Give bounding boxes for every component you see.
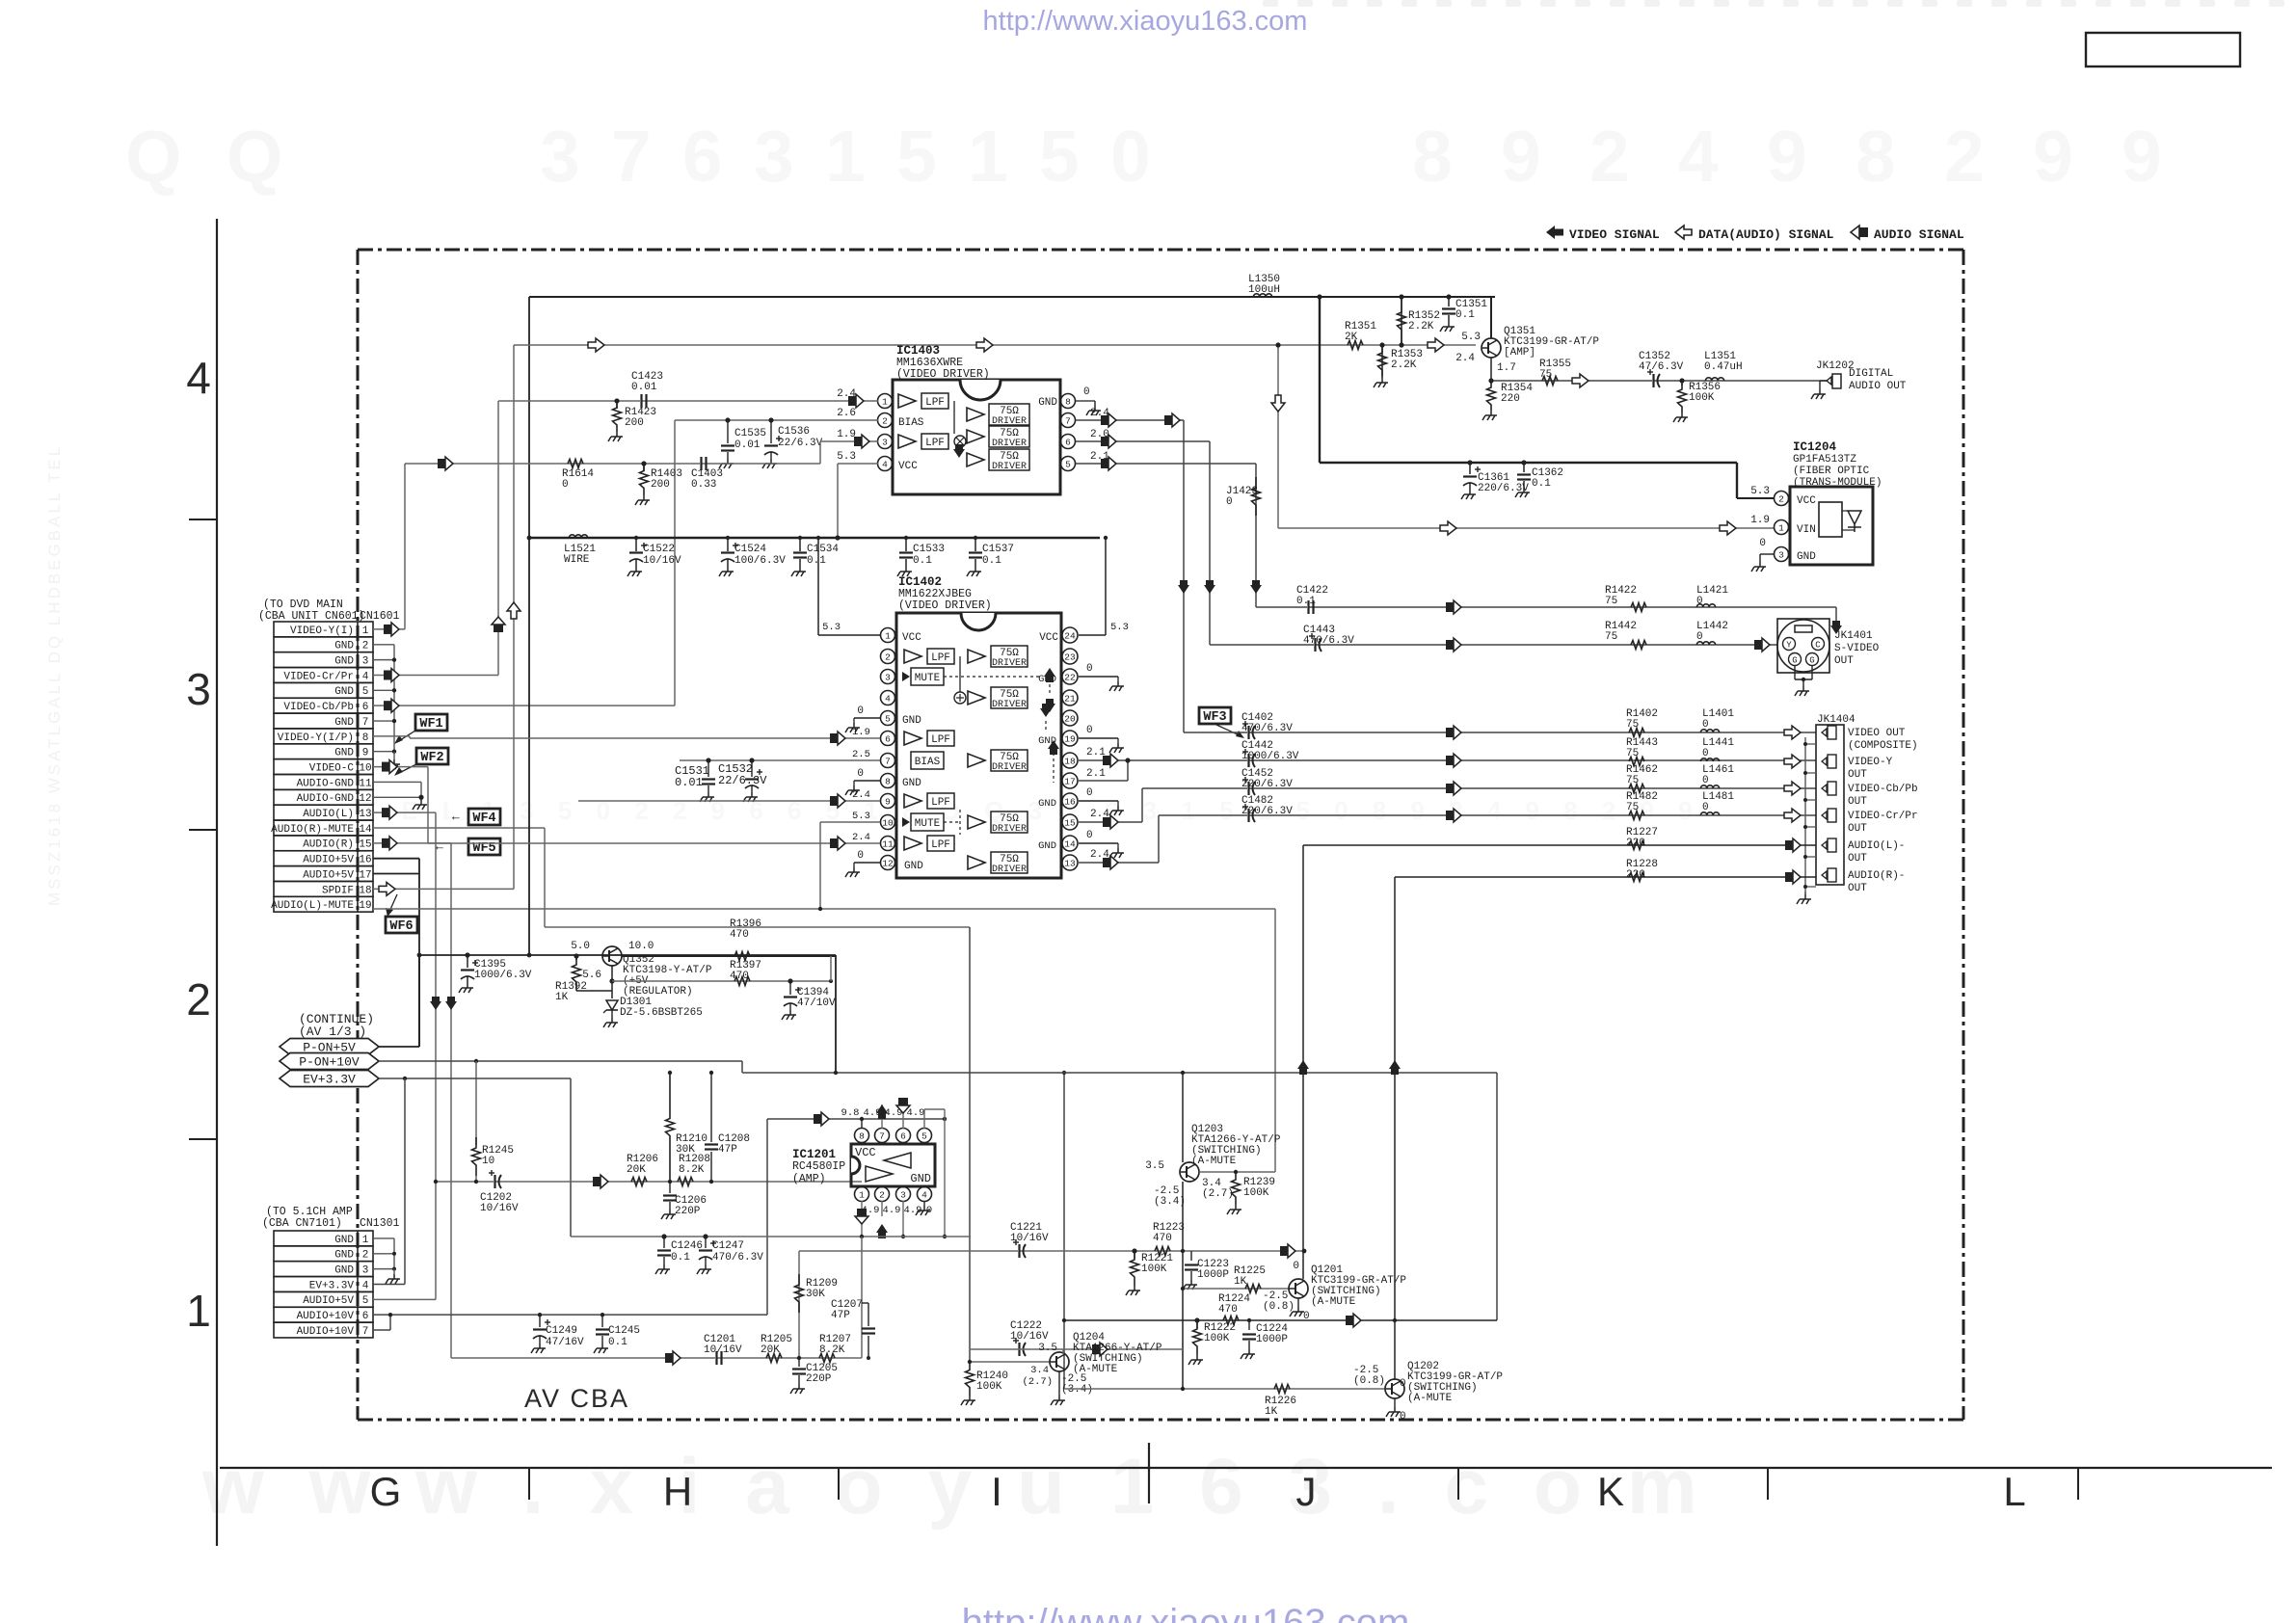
svg-text:3.5: 3.5 [1038,1343,1057,1354]
svg-text:0.1: 0.1 [1296,596,1316,607]
svg-text:18: 18 [359,885,371,896]
svg-text:1K: 1K [1234,1276,1247,1288]
svg-text:47/16V: 47/16V [546,1337,584,1348]
svg-text:C1522: C1522 [643,544,675,555]
svg-text:5.6: 5.6 [582,970,601,981]
svg-text:470/6.3V: 470/6.3V [1241,723,1293,734]
svg-text:220P: 220P [675,1206,701,1217]
svg-text:0.1: 0.1 [1532,478,1551,490]
svg-text:JK1404: JK1404 [1817,714,1855,726]
svg-text:3.5: 3.5 [1145,1160,1164,1172]
svg-text:LPF: LPF [931,652,950,664]
svg-text:22/6.3V: 22/6.3V [778,438,823,449]
svg-text:CN1601: CN1601 [360,610,400,623]
svg-text:AUDIO OUT: AUDIO OUT [1849,381,1907,392]
svg-text:3: 3 [186,664,211,714]
svg-text:47/10V: 47/10V [797,998,836,1009]
svg-text:(A-MUTE: (A-MUTE [1311,1296,1356,1308]
svg-text:C1249: C1249 [546,1325,577,1337]
svg-text:LPF: LPF [925,397,945,409]
svg-text:GND: GND [1038,798,1056,810]
svg-text:12: 12 [882,859,894,869]
svg-text:0.01: 0.01 [631,382,657,393]
svg-text:0: 0 [562,479,569,491]
svg-text:VIDEO-Cr/Pr: VIDEO-Cr/Pr [283,671,354,682]
svg-text:16: 16 [1064,797,1076,808]
svg-text:SPDIF: SPDIF [322,885,354,896]
svg-text:8: 8 [362,732,369,744]
svg-text:CN1301: CN1301 [360,1217,400,1230]
svg-text:7: 7 [611,116,652,197]
svg-text:0: 0 [1293,1261,1299,1272]
svg-text:VIN: VIN [1797,524,1816,536]
svg-text:4.9: 4.9 [907,1107,925,1119]
svg-text:2.1: 2.1 [1090,451,1109,463]
svg-text:VIDEO-Y: VIDEO-Y [1848,757,1893,768]
svg-text:0.1: 0.1 [671,1252,690,1264]
svg-text:IC1204: IC1204 [1793,440,1837,454]
svg-text:C1246: C1246 [671,1240,703,1252]
svg-text:0: 0 [857,768,864,780]
svg-text:C1534: C1534 [807,544,839,555]
svg-text:470/6.3V: 470/6.3V [1303,635,1354,647]
svg-text:(0.8): (0.8) [1353,1375,1385,1387]
svg-text:4: 4 [882,460,888,470]
svg-text:C1247: C1247 [712,1240,744,1252]
svg-text:220/6.3V: 220/6.3V [1241,806,1293,817]
svg-text:(3.4): (3.4) [1061,1384,1093,1396]
svg-text:5: 5 [1065,460,1071,470]
svg-text:DATA(AUDIO) SIGNAL: DATA(AUDIO) SIGNAL [1698,227,1834,242]
svg-text:DZ-5.6BSBT265: DZ-5.6BSBT265 [620,1007,703,1019]
svg-text:GND: GND [334,1250,354,1262]
svg-text:EV+3.3V: EV+3.3V [303,1073,356,1087]
svg-text:GND: GND [910,1172,931,1185]
svg-text:DRIVER: DRIVER [992,439,1027,449]
svg-text:2.0: 2.0 [1090,429,1109,440]
svg-text:OUT: OUT [1848,796,1867,808]
svg-text:0: 0 [1086,787,1093,799]
svg-text:1: 1 [968,116,1008,197]
svg-text:S-VIDEO: S-VIDEO [1834,643,1880,654]
svg-text:0: 0 [1086,663,1093,675]
svg-text:LPF: LPF [931,797,950,809]
svg-text:0: 0 [1226,496,1233,508]
svg-text:5.3: 5.3 [837,451,856,463]
svg-text:1.9: 1.9 [852,727,870,738]
svg-text:12: 12 [359,793,371,805]
svg-text:10/16V: 10/16V [480,1203,519,1214]
svg-text:GP1FA513TZ: GP1FA513TZ [1793,454,1856,466]
svg-text:10/16V: 10/16V [704,1344,742,1356]
svg-text:0: 0 [1702,719,1709,731]
svg-text:5: 5 [1039,116,1080,197]
svg-text:3.4: 3.4 [1030,1365,1049,1376]
svg-text:9: 9 [885,797,891,808]
svg-text:14: 14 [1064,839,1076,850]
svg-text:OUT: OUT [1848,853,1867,865]
svg-text:VIDEO-Y(I): VIDEO-Y(I) [290,625,354,637]
svg-text:OUT: OUT [1848,883,1867,894]
svg-text:1000P: 1000P [1256,1334,1288,1345]
svg-text:GND: GND [902,715,921,727]
svg-text:OUT: OUT [1834,655,1854,667]
svg-text:10: 10 [482,1156,494,1167]
svg-text:WF2: WF2 [420,751,443,765]
svg-text:AUDIO+5V: AUDIO+5V [303,1295,354,1307]
svg-text:AUDIO-GND: AUDIO-GND [297,793,355,805]
svg-text:VIDEO OUT: VIDEO OUT [1848,728,1906,739]
svg-text:100K: 100K [976,1381,1002,1393]
svg-text:MUTE: MUTE [915,818,941,830]
svg-text:0.01: 0.01 [675,776,703,789]
svg-text:C1535: C1535 [734,428,766,439]
svg-text:2.4: 2.4 [1090,809,1109,820]
svg-text:2: 2 [1944,116,1985,197]
svg-text:10: 10 [882,818,894,829]
svg-text:0: 0 [857,850,864,862]
svg-text:10: 10 [359,762,371,774]
svg-text:1.7: 1.7 [1497,362,1516,374]
svg-text:0.1: 0.1 [982,555,1001,567]
svg-text:AUDIO(R): AUDIO(R) [303,839,354,851]
svg-text:22/6.3V: 22/6.3V [718,774,767,787]
svg-text:3: 3 [540,116,580,197]
svg-text:75: 75 [1605,631,1617,643]
svg-text:5.3: 5.3 [822,622,841,633]
svg-text:IC1403: IC1403 [896,344,940,358]
svg-text:30K: 30K [676,1144,695,1156]
svg-text:10/16V: 10/16V [1010,1233,1049,1244]
svg-text:0.33: 0.33 [691,479,716,491]
svg-text:2.4: 2.4 [1090,408,1109,419]
svg-text:11: 11 [359,778,372,789]
svg-text:Q: Q [125,116,181,197]
svg-text:DRIVER: DRIVER [992,462,1027,472]
svg-text:J: J [1296,1469,1317,1514]
svg-text:←: ← [452,810,460,824]
svg-text:0: 0 [1086,725,1093,736]
svg-text:2.4: 2.4 [837,388,856,400]
svg-text:0.1: 0.1 [608,1337,627,1348]
svg-text:20K: 20K [761,1344,780,1356]
svg-text:EV+3.3V: EV+3.3V [309,1280,355,1291]
svg-text:0: 0 [1702,748,1709,759]
svg-text:4: 4 [885,694,891,705]
svg-text:WF6: WF6 [389,919,413,934]
svg-text:3: 3 [362,656,369,668]
svg-text:20: 20 [1064,714,1076,725]
svg-text:0: 0 [857,705,864,717]
svg-text:20K: 20K [627,1164,646,1176]
svg-text:0.1: 0.1 [1455,309,1475,321]
svg-text:(AV 1/3 ): (AV 1/3 ) [299,1024,366,1039]
svg-text:220P: 220P [806,1373,832,1385]
svg-text:GND: GND [1038,397,1057,409]
svg-text:75: 75 [1539,369,1552,381]
svg-text:75: 75 [1626,719,1639,731]
svg-text:7: 7 [362,717,369,729]
svg-text:DIGITAL: DIGITAL [1849,368,1893,380]
svg-text:2.4: 2.4 [852,832,870,843]
svg-text:VIDEO-Cb/Pb: VIDEO-Cb/Pb [283,702,354,713]
svg-text:[AMP]: [AMP] [1504,347,1535,359]
svg-text:2.4: 2.4 [1455,353,1475,364]
svg-text:100K: 100K [1689,392,1715,404]
svg-text:(VIDEO DRIVER): (VIDEO DRIVER) [898,599,992,612]
svg-text:1: 1 [362,625,369,637]
svg-text:3: 3 [885,673,891,683]
svg-text:VCC: VCC [902,632,921,644]
svg-text:2.1: 2.1 [1086,747,1106,758]
svg-text:P-ON+10V: P-ON+10V [299,1055,360,1070]
svg-text:3: 3 [1778,550,1784,561]
svg-text:w w w . x i a o y u 1 6 3 .: w w w . x i a o y u 1 6 3 . c o m [201,1443,1709,1530]
svg-text:I: I [991,1469,1002,1514]
svg-text:3: 3 [362,1265,369,1277]
svg-text:1: 1 [859,1190,865,1201]
svg-text:H: H [663,1469,692,1514]
svg-text:GND: GND [902,778,921,789]
svg-text:4: 4 [921,1190,927,1201]
svg-text:3: 3 [754,116,794,197]
svg-text:http://www.xiaoyu163.com: http://www.xiaoyu163.com [962,1602,1410,1623]
svg-text:AUDIO(L): AUDIO(L) [303,809,354,820]
svg-text:47/6.3V: 47/6.3V [1639,361,1684,373]
svg-text:GND: GND [904,861,923,872]
svg-text:10/16V: 10/16V [643,555,681,567]
svg-text:IC1201: IC1201 [792,1148,836,1161]
svg-text:8: 8 [885,777,891,787]
svg-text:AUDIO+5V: AUDIO+5V [303,869,354,881]
svg-text:0: 0 [1400,1378,1406,1390]
svg-text:C: C [1815,641,1821,651]
svg-text:9.8: 9.8 [841,1107,860,1119]
svg-text:(AMP): (AMP) [792,1173,826,1185]
svg-text:470/6.3V: 470/6.3V [712,1252,763,1264]
svg-text:Q: Q [227,116,282,197]
svg-text:10.0: 10.0 [628,941,654,952]
svg-text:9: 9 [2033,116,2073,197]
svg-text:2.1: 2.1 [1086,768,1106,780]
svg-text:OUT: OUT [1848,823,1867,835]
svg-text:2.6: 2.6 [837,408,856,419]
svg-text:0: 0 [1083,386,1090,398]
svg-text:1000/6.3V: 1000/6.3V [1241,751,1299,762]
svg-text:0: 0 [1702,802,1709,813]
svg-text:(0.8): (0.8) [1263,1301,1295,1313]
svg-text:DRIVER: DRIVER [992,865,1027,875]
svg-text:1: 1 [1778,523,1784,534]
svg-text:10/16V: 10/16V [1010,1331,1049,1343]
svg-text:100uH: 100uH [1248,284,1280,296]
svg-text:IC1402: IC1402 [898,575,942,589]
svg-text:0.1: 0.1 [913,555,932,567]
svg-text:(CBA CN7101): (CBA CN7101) [262,1217,342,1230]
svg-text:(2.7): (2.7) [1022,1376,1053,1388]
svg-text:4: 4 [362,671,369,682]
svg-text:7: 7 [885,757,891,767]
svg-text:2: 2 [879,1190,885,1201]
svg-text:1000P: 1000P [1197,1269,1229,1281]
svg-text:2: 2 [362,641,369,652]
svg-text:24: 24 [1064,631,1076,642]
svg-text:GND: GND [334,748,354,759]
svg-text:0: 0 [1110,116,1151,197]
svg-text:470: 470 [730,971,749,982]
svg-text:2: 2 [885,652,891,663]
svg-text:47P: 47P [718,1144,737,1156]
svg-text:0.01: 0.01 [734,439,761,451]
svg-text:8: 8 [1065,397,1071,408]
svg-text:6: 6 [682,116,723,197]
svg-text:(2.7): (2.7) [1202,1188,1234,1200]
svg-text:2.4: 2.4 [1090,849,1109,861]
svg-text:75: 75 [1626,802,1639,813]
svg-text:AUDIO(L)-: AUDIO(L)- [1848,840,1905,852]
svg-text:100/6.3V: 100/6.3V [734,555,786,567]
svg-text:AUDIO-GND: AUDIO-GND [297,778,355,789]
svg-text:(VIDEO DRIVER): (VIDEO DRIVER) [896,368,990,381]
svg-text:VIDEO SIGNAL: VIDEO SIGNAL [1569,227,1660,242]
svg-text:220: 220 [1626,838,1645,849]
svg-text:47P: 47P [831,1310,850,1321]
svg-text:15: 15 [1064,818,1076,829]
svg-text:5: 5 [362,1295,369,1307]
svg-text:GND: GND [334,656,354,668]
svg-text:21: 21 [1064,694,1076,705]
svg-text:6: 6 [1065,438,1071,448]
svg-text:VCC: VCC [855,1146,876,1159]
svg-text:75: 75 [1626,775,1639,786]
svg-text:5.3: 5.3 [1461,332,1481,343]
svg-text:K: K [1597,1469,1624,1514]
svg-text:7: 7 [879,1131,885,1142]
svg-text:MUTE: MUTE [915,673,941,684]
svg-text:VIDEO-C: VIDEO-C [309,762,355,774]
svg-text:T E L 1 3 5 0 2 2 9 6 6 5 1 8: T E L 1 3 5 0 2 2 9 6 6 5 1 8 Q Q 3 7 6 … [361,796,1701,825]
svg-text:11: 11 [882,839,894,850]
svg-text:0: 0 [1696,596,1703,607]
svg-text:WF3: WF3 [1203,710,1226,725]
svg-text:470: 470 [1218,1304,1238,1316]
svg-text:2.2K: 2.2K [1391,359,1417,371]
svg-text:8.2K: 8.2K [819,1344,845,1356]
svg-text:13: 13 [359,809,371,820]
svg-text:9: 9 [362,748,369,759]
svg-text:DRIVER: DRIVER [992,824,1027,835]
svg-text:220/6.3V: 220/6.3V [1241,779,1293,790]
svg-text:14: 14 [359,824,372,836]
svg-text:2.5: 2.5 [852,749,870,760]
svg-text:8: 8 [1412,116,1453,197]
svg-text:470: 470 [1153,1233,1172,1244]
svg-text:(A-MUTE: (A-MUTE [1191,1156,1237,1167]
svg-text:VIDEO-Cr/Pr: VIDEO-Cr/Pr [1848,811,1918,822]
svg-text:BIAS: BIAS [898,417,924,429]
svg-text:5: 5 [362,686,369,698]
svg-text:AUDIO+10V: AUDIO+10V [297,1326,355,1338]
svg-text:4: 4 [186,353,211,403]
svg-text:9: 9 [1501,116,1541,197]
svg-text:C1536: C1536 [778,426,810,438]
svg-text:8.2K: 8.2K [679,1164,705,1176]
svg-text:200: 200 [625,417,644,429]
svg-text:15: 15 [359,839,371,851]
svg-text:2: 2 [362,1250,369,1262]
svg-text:16: 16 [359,855,371,866]
svg-text:←: ← [436,839,443,854]
svg-text:6: 6 [885,734,891,745]
svg-text:VCC: VCC [1797,495,1816,507]
svg-text:2K: 2K [1345,332,1358,343]
svg-text:AUDIO(R)-: AUDIO(R)- [1848,870,1905,882]
svg-text:17: 17 [359,869,371,881]
svg-text:WIRE: WIRE [564,554,590,566]
svg-text:3: 3 [900,1190,906,1201]
svg-text:4: 4 [1678,116,1719,197]
svg-text:6: 6 [900,1131,906,1142]
svg-text:2: 2 [882,416,888,427]
svg-text:(CBA UNIT CN601): (CBA UNIT CN601) [258,610,364,623]
svg-text:http://www.xiaoyu163.com: http://www.xiaoyu163.com [983,6,1308,37]
svg-text:2: 2 [1778,494,1784,505]
svg-text:6: 6 [362,702,369,713]
svg-text:1000/6.3V: 1000/6.3V [474,970,532,981]
svg-text:AUDIO(L)-MUTE: AUDIO(L)-MUTE [271,900,354,912]
svg-text:RC4580IP: RC4580IP [792,1160,845,1173]
svg-text:3: 3 [882,438,888,448]
svg-text:0: 0 [1702,775,1709,786]
svg-text:100K: 100K [1141,1264,1167,1275]
svg-text:L: L [2003,1469,2025,1514]
svg-text:5: 5 [921,1131,927,1142]
svg-text:9: 9 [1767,116,1807,197]
svg-text:Y: Y [1786,641,1792,651]
svg-text:1.9: 1.9 [1750,515,1770,526]
svg-text:WF4: WF4 [472,811,495,826]
svg-text:GND: GND [334,641,354,652]
svg-text:22: 22 [1064,673,1076,683]
svg-text:220: 220 [1501,393,1520,405]
svg-text:220: 220 [1626,869,1645,881]
svg-text:5: 5 [896,116,937,197]
svg-text:AUDIO(R)-MUTE: AUDIO(R)-MUTE [271,824,354,836]
svg-text:1K: 1K [1265,1406,1278,1418]
svg-text:C1537: C1537 [982,544,1014,555]
svg-text:6: 6 [362,1311,369,1322]
svg-text:1: 1 [186,1286,211,1336]
svg-text:4.9: 4.9 [883,1205,901,1216]
svg-text:GND: GND [334,717,354,729]
svg-text:75: 75 [1605,596,1617,607]
svg-text:(FIBER OPTIC: (FIBER OPTIC [1793,466,1870,477]
svg-text:1: 1 [825,116,866,197]
svg-text:BIAS: BIAS [915,757,941,768]
svg-text:AV CBA: AV CBA [524,1384,629,1413]
svg-text:19: 19 [359,900,371,912]
svg-text:2.2K: 2.2K [1408,321,1434,333]
svg-text:17: 17 [1064,777,1075,787]
svg-text:VCC: VCC [898,461,918,472]
svg-text:(COMPOSITE): (COMPOSITE) [1848,740,1918,752]
svg-text:7: 7 [1065,416,1071,427]
svg-text:5.0: 5.0 [571,941,590,952]
svg-text:8: 8 [1855,116,1896,197]
svg-text:OUT: OUT [1848,769,1867,781]
svg-text:0: 0 [1696,631,1703,643]
svg-text:4: 4 [362,1280,369,1291]
